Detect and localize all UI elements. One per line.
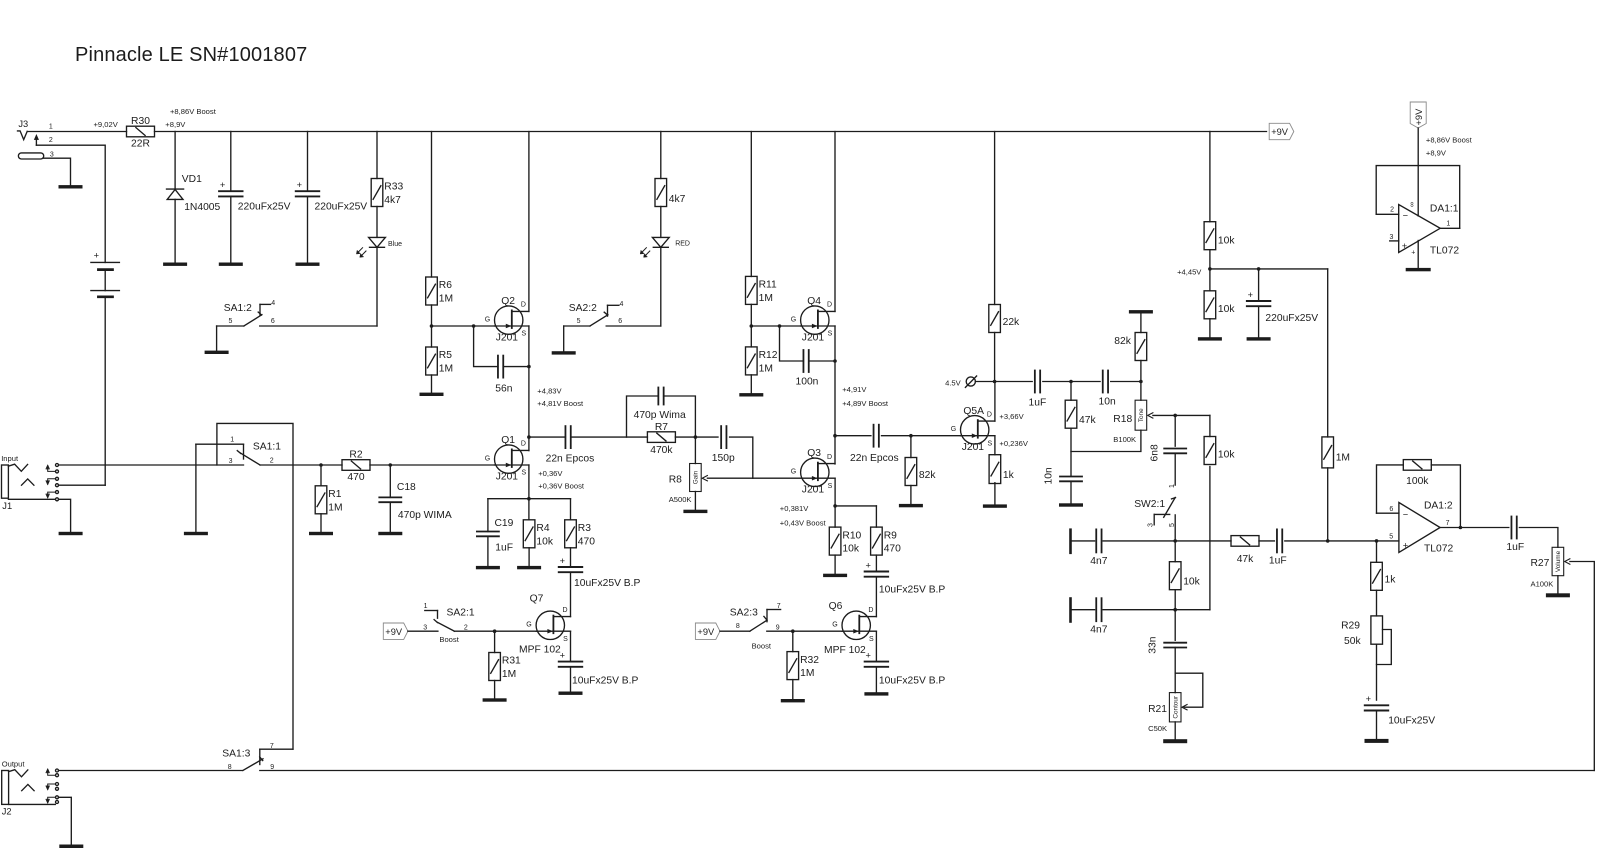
label +4,89V Boost [842,399,889,408]
svg-text:1M: 1M [502,669,516,680]
svg-text:Q1: Q1 [501,435,515,446]
svg-text:7: 7 [270,743,274,750]
wire red LED to SA2:2 [660,247,662,326]
ground Q7 source [559,692,583,695]
connector J3 power jack [18,119,54,159]
svg-text:1M: 1M [759,364,773,375]
wire test point to node [975,381,994,383]
svg-text:47k: 47k [1079,415,1096,426]
svg-text:1: 1 [424,603,428,610]
capacitor C19 1uF [477,532,499,537]
switch SA1:1 [196,437,281,465]
wire +input line [1328,540,1399,542]
node R32 junction [791,629,795,633]
svg-text:TL072: TL072 [1430,246,1459,257]
wire 4k7 to red LED [660,207,662,238]
wire J1 sleeve to ground [59,499,71,532]
label +8,9V [1426,149,1447,158]
ground Q6 source [864,692,888,695]
svg-text:470p WIMA: 470p WIMA [398,510,452,521]
resistor 100k feedback [1403,460,1431,471]
svg-text:6: 6 [618,318,622,325]
switch SW2:1 [1134,484,1176,541]
svg-text:2: 2 [270,457,274,464]
svg-text:R33: R33 [384,182,403,193]
wire wiper node to Q3 gate [707,477,799,479]
ground DA1:1 [1406,268,1431,271]
svg-text:+: + [560,650,565,660]
svg-text:SA1:1: SA1:1 [253,442,281,453]
svg-text:+0,36V Boost: +0,36V Boost [538,482,585,491]
svg-text:+: + [1411,250,1415,257]
node 22n tap [527,435,531,439]
svg-text:22n Epcos: 22n Epcos [546,453,595,464]
label +0,236V [999,439,1028,448]
node 82k R18 junction [1139,380,1143,384]
svg-text:2: 2 [1390,207,1394,214]
label 150p [712,453,735,464]
svg-text:J3: J3 [18,119,28,129]
wire rail to R33 [376,132,378,179]
svg-text:+4,81V Boost: +4,81V Boost [537,399,584,408]
+9V power flag DA1:1 [1410,102,1426,128]
wire Q3 drain node to 22n second [835,435,871,437]
wire R21 wiper loop [1175,673,1203,707]
capacitor 10n series [1103,371,1108,393]
node line2 junction [1173,608,1177,612]
label pin3 [1390,234,1394,241]
svg-text:5: 5 [1389,534,1393,541]
svg-text:22n Epcos: 22n Epcos [850,453,899,464]
label 220uFx25V [1265,313,1318,324]
wire 33n to R21 [1174,648,1176,693]
svg-text:4n7: 4n7 [1090,556,1107,567]
resistor R3 [565,520,596,548]
svg-text:S: S [988,440,993,447]
svg-text:3: 3 [1390,234,1394,241]
resistor 1k DA1:2 [1371,562,1397,590]
wire Q6 source to C [875,631,877,661]
label pin5 [1389,534,1393,541]
resistor 82k second [1114,333,1146,361]
ground 10uF out [1365,739,1389,743]
svg-text:10uFx25V B.P: 10uFx25V B.P [574,578,641,589]
svg-text:+9V: +9V [697,627,715,637]
svg-text:1uF: 1uF [495,543,513,554]
svg-text:+: + [1403,540,1408,550]
wire source branch 2 [835,505,876,507]
svg-text:10k: 10k [536,536,553,547]
ground R21 [1163,739,1187,743]
wire gate node to R12 [750,326,752,347]
wire SA1:1 pin1 to ground [195,444,197,532]
svg-text:+0,381V: +0,381V [780,504,809,513]
label 4n7 [1090,625,1107,636]
wire C to Q6 drain [875,577,877,617]
wire 1uF to 10n [1043,381,1100,383]
ground C18 [378,532,402,535]
wire Q1 source down [528,465,530,499]
wire rail to 22k [994,132,996,305]
wire to R31 [494,631,496,652]
capacitor 220uFx25V third [1247,290,1271,306]
wire C to ground [570,667,572,692]
ground R31 [483,698,507,701]
svg-text:6: 6 [271,318,275,325]
label pin1 [1446,221,1450,228]
wire R29 wiper loop [1377,630,1392,665]
svg-text:33n: 33n [1147,636,1158,653]
wire SA1:1 pin2 to R2 [260,464,342,466]
wire C to Q7 drain [570,572,572,616]
ground SA1:1 [184,532,208,535]
ground C second [296,263,320,266]
ground VD1 [163,263,187,266]
wire 82k to ground [910,486,912,504]
svg-text:B100K: B100K [1113,435,1136,444]
wire R32 to ground [792,680,794,699]
svg-text:+: + [220,180,225,190]
svg-text:C18: C18 [397,482,416,493]
wire R10 to ground [834,555,836,574]
label +9,02V [94,120,119,129]
svg-text:Tone: Tone [1138,408,1145,422]
label +0,36V [538,469,563,478]
svg-text:D: D [827,454,832,461]
svg-text:1uF: 1uF [1029,397,1047,408]
wire R3 to C bypass [570,548,572,567]
wire rail to Q2 drain [528,132,530,312]
ground divider [1198,337,1222,340]
wire battery negative to J1 [104,297,106,485]
switch SA2:2 [564,301,661,326]
svg-text:VD1: VD1 [182,174,202,185]
label 1uF [495,543,513,554]
svg-text:4k7: 4k7 [669,194,686,205]
svg-text:D: D [987,411,992,418]
svg-text:10uFx25V B.P: 10uFx25V B.P [879,584,946,595]
wire C19 to ground [487,536,489,566]
node Q4 gate junction [750,324,754,328]
svg-text:R32: R32 [800,655,819,666]
node 1M junction [1326,539,1330,543]
wire +9V rail [155,131,1267,133]
svg-text:1M: 1M [759,293,773,304]
svg-text:+4,45V: +4,45V [1177,268,1202,277]
svg-text:+8,86V Boost: +8,86V Boost [170,107,217,116]
svg-text:S: S [563,636,568,643]
ground SA1:2 [205,351,229,354]
svg-text:10uFx25V: 10uFx25V [1388,715,1435,726]
potentiometer R18 Tone B100K [1113,400,1146,444]
svg-text:50k: 50k [1344,636,1361,647]
capacitor 220uFx25V second [296,180,320,196]
wire 220uF to ground [1258,306,1260,337]
wire Q2 source to Q1 drain [528,326,530,451]
capacitor C18 470p [379,497,401,502]
ground R32 [781,699,805,702]
switch SA1:2 [217,300,377,326]
label R30 [131,116,150,127]
capacitor 470p Wima [658,388,663,405]
label +8,9V [165,120,186,129]
transistor Q1 J201 [485,435,529,482]
resistor R10 [829,527,861,555]
svg-text:10uFx25V B.P: 10uFx25V B.P [879,676,946,687]
svg-text:1N4005: 1N4005 [184,202,220,213]
ground 82k first [899,504,923,507]
wire R8 to ground [694,492,696,510]
wire 1k to R29 [1376,590,1378,616]
label 470p Wima [634,410,686,421]
resistor 47k tone [1065,400,1096,428]
switch SA2:3 [730,603,781,650]
title [75,44,307,66]
svg-text:Boost: Boost [752,641,772,650]
svg-text:J2: J2 [2,806,12,816]
wire feedback right [1431,465,1460,528]
svg-text:1M: 1M [800,668,814,679]
wire 22n to Q5A gate [882,435,961,437]
label 22n Epcos [850,453,899,464]
capacitor 4n7 first [1096,529,1101,552]
wire bottom bus [260,770,1595,772]
wire R27 wiper to bus [1570,562,1594,771]
connector J2 output jack [2,759,59,816]
wire C second to ground [307,196,309,262]
svg-text:R2: R2 [349,450,362,461]
svg-text:D: D [563,607,568,614]
wire 4n7 to 10k column [1103,609,1210,611]
wire +input to 1k [1376,541,1378,562]
node source branch 2 [833,504,837,508]
label 220uFx25V [315,202,368,213]
wire rail to R6 [431,132,433,278]
label 220uFx25V [238,202,291,213]
svg-text:10n: 10n [1099,397,1116,408]
wire C to ground [875,667,877,692]
wire C18 to ground [389,502,391,532]
svg-text:9: 9 [270,764,274,771]
wire rail to C 220uF second [307,132,309,192]
svg-text:2: 2 [49,137,53,144]
wire SA2:3 pin9 to Q6 gate [767,630,842,632]
svg-text:R12: R12 [759,350,778,361]
svg-text:+9V: +9V [1414,108,1424,126]
wire to C19 [487,499,489,532]
capacitor 10uFx25V out [1365,694,1389,710]
svg-text:10n: 10n [1044,467,1055,484]
svg-text:S: S [828,331,833,338]
svg-text:1M: 1M [439,294,453,305]
resistor R5 [426,347,453,375]
label 470 [347,472,364,483]
label +0,381V [780,504,809,513]
label 56n [495,383,512,394]
svg-text:DA1:1: DA1:1 [1430,203,1459,214]
wire rail to C 220uF first [230,132,232,192]
LED blue [356,237,402,257]
svg-text:220uFx25V: 220uFx25V [238,202,291,213]
svg-text:−: − [1403,509,1408,519]
wire to R9 [875,506,877,527]
svg-text:+: + [865,560,870,570]
label R2 [349,450,362,461]
svg-text:+: + [865,650,870,660]
node 100n tap [778,324,782,328]
ground bar 82k second [1129,310,1153,313]
label 10uFx25V B.P [572,676,639,687]
svg-text:5: 5 [577,318,581,325]
svg-text:+: + [560,556,565,566]
resistor 10k mid [1169,562,1200,590]
svg-text:22R: 22R [131,139,150,150]
svg-text:C19: C19 [495,518,514,529]
svg-text:Q2: Q2 [501,296,515,307]
transistor Q5A J201 [951,406,995,453]
svg-text:G: G [791,317,796,324]
wire DA1:1 pin1 [1440,227,1460,229]
svg-text:100n: 100n [796,377,819,388]
wire 10uF to ground [1376,711,1378,739]
wire C first to ground [230,196,232,262]
potentiometer R21 Contour C50K [1148,693,1181,733]
svg-text:+8,9V: +8,9V [165,120,186,129]
svg-text:22k: 22k [1003,317,1020,328]
svg-text:J1: J1 [2,501,12,511]
label +4,91V [842,385,867,394]
svg-text:220uFx25V: 220uFx25V [1265,313,1318,324]
svg-text:+: + [94,250,99,260]
svg-text:Pinnacle LE SN#1001807: Pinnacle LE SN#1001807 [75,44,307,66]
svg-text:D: D [521,302,526,309]
ground R5 [420,393,444,396]
switch SA1:3 [222,743,293,771]
wire DA1:1 feedback loop [1376,166,1460,229]
label C19 [495,518,514,529]
resistor 47k series [1231,536,1259,547]
svg-text:+: + [1248,290,1253,300]
potentiometer R27 Volume A100K [1531,547,1564,588]
wire R2 to Q1 gate [370,464,495,466]
label 10uFx25V [1388,715,1435,726]
svg-text:D: D [868,607,873,614]
terminal bar 4n7 first [1069,530,1072,553]
svg-text:J201: J201 [496,471,519,482]
op-amp DA1:1 TL072 [1399,202,1460,257]
resistor R12 [746,347,778,375]
test point 4.5V [945,376,977,388]
svg-text:+9V: +9V [1271,127,1289,137]
wiper R21 [1182,705,1187,710]
node 56n tap [472,324,476,328]
svg-text:Q3: Q3 [807,448,821,459]
svg-text:G: G [791,469,796,476]
label pin2 [1390,207,1394,214]
node SW2:1 line junction [1173,539,1177,543]
svg-text:100k: 100k [1406,476,1429,487]
capacitor 100n [803,350,808,372]
svg-text:J201: J201 [802,332,825,343]
node 6n8 tap [1173,414,1177,418]
svg-text:+4,91V: +4,91V [842,385,867,394]
trimmer R29 50k [1341,616,1382,647]
svg-text:R29: R29 [1341,620,1360,631]
resistor R4 [523,520,554,548]
svg-text:10k: 10k [842,544,859,555]
svg-text:R31: R31 [502,656,521,667]
svg-text:R5: R5 [439,350,452,361]
svg-text:470: 470 [347,472,364,483]
svg-text:Volume: Volume [1555,550,1562,572]
wire flag to SA2:1 pin3 [408,630,438,632]
svg-text:7: 7 [1446,520,1450,527]
svg-text:9: 9 [776,624,780,631]
label +3,66V [999,412,1024,421]
wire J2 tip to SA1:3 pin8 [59,770,243,772]
capacitor 33n [1164,643,1186,648]
wire node to 10k [1174,541,1176,562]
wire 470p loop right [664,396,696,437]
ground 220uF third [1247,337,1271,340]
svg-text:5: 5 [229,318,233,325]
svg-text:+4,83V: +4,83V [537,387,562,396]
wire Q7 source to C [570,631,572,661]
wire R31 to ground [494,681,496,699]
label 4n7 [1090,556,1107,567]
wire 82k to R18 [1140,361,1142,401]
terminal bar 4n7 second [1069,599,1072,622]
resistor R6 [426,277,453,305]
resistor 10k top [1204,222,1235,250]
svg-text:8: 8 [228,764,232,771]
wire R7 to 150p [675,436,718,438]
battery 9V [91,250,120,297]
ground J1 [59,532,83,535]
resistor 4k7 red LED [655,179,686,207]
wire Q4 source to Q3 drain [834,326,836,464]
label +0,43V Boost [780,519,827,528]
svg-text:J201: J201 [802,485,825,496]
wire R29 to 10uF [1376,644,1378,700]
svg-text:Boost: Boost [439,635,459,644]
svg-text:470: 470 [578,536,595,547]
label 10uFx25V B.P [879,676,946,687]
capacitor 56n [498,356,503,378]
svg-text:4n7: 4n7 [1090,625,1107,636]
svg-text:SA2:2: SA2:2 [569,303,597,314]
wire gate node to R5 [431,326,433,347]
wire junction to R8 [694,437,696,463]
transistor Q6 MPF102 [824,601,876,656]
node 100n source junction [833,359,837,363]
op-amp DA1:2 TL072 [1399,501,1454,555]
wire R27 to ground [1557,576,1559,594]
svg-text:A500K: A500K [669,495,692,504]
svg-text:+3,66V: +3,66V [999,412,1024,421]
svg-text:Contour: Contour [1173,695,1180,719]
svg-text:3: 3 [229,458,233,465]
wire drain node to 1uF [995,381,1033,383]
wire J1 tip to SA1:1 pin3 [59,464,244,466]
wire SA2:2 pin5 to ground [563,326,565,351]
svg-text:+0,236V: +0,236V [999,439,1028,448]
wire +4,45V to 1M [1210,268,1328,270]
wire 10k to +4,45V node [1209,250,1211,269]
ground R8 [683,510,707,513]
node 47k tone junction [1069,380,1073,384]
capacitor 1uF opamp [1277,529,1282,552]
